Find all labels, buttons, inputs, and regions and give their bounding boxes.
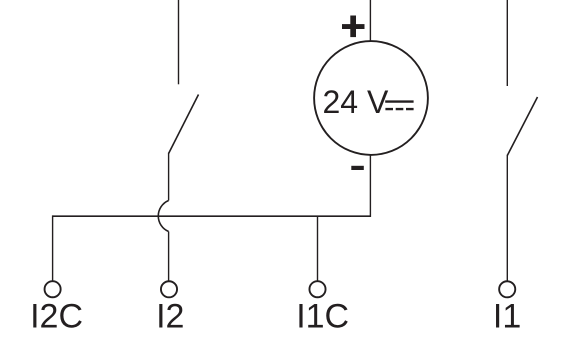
- svg-text:I2: I2: [156, 298, 184, 336]
- terminal circle I1C: [309, 281, 325, 297]
- minus polarity mark: [351, 166, 364, 170]
- wire source bottom to bus: [369, 154, 371, 217]
- svg-text:I1: I1: [493, 298, 521, 336]
- wire drop to terminal I2C: [52, 215, 54, 281]
- DC symbol solid bar: [385, 100, 413, 102]
- plus polarity mark: [342, 16, 365, 38]
- terminal circle I1: [499, 281, 515, 297]
- wire drop to terminal I1C: [317, 216, 319, 281]
- svg-text:24 V: 24 V: [323, 84, 389, 120]
- wire switch I1 lower segment to terminal I1: [506, 155, 508, 281]
- wire from hop to terminal I2: [168, 232, 170, 282]
- svg-text:I1C: I1C: [296, 298, 349, 336]
- bus wire horizontal: [53, 215, 371, 217]
- terminal circle I2C: [45, 281, 61, 297]
- voltage source circle G1: [314, 41, 428, 155]
- wire top right vertical: [506, 0, 508, 86]
- switch contact I2 blade: [169, 95, 199, 154]
- switch contact I1 blade: [507, 97, 537, 156]
- wire switch I2 lower segment: [168, 153, 170, 201]
- DC symbol dashed bar: [385, 108, 413, 110]
- svg-text:I2C: I2C: [30, 298, 83, 336]
- wire hop arc over bus: [158, 201, 168, 232]
- wire source top: [369, 0, 371, 42]
- terminal circle I2: [161, 281, 177, 297]
- wire top left vertical: [178, 0, 180, 84]
